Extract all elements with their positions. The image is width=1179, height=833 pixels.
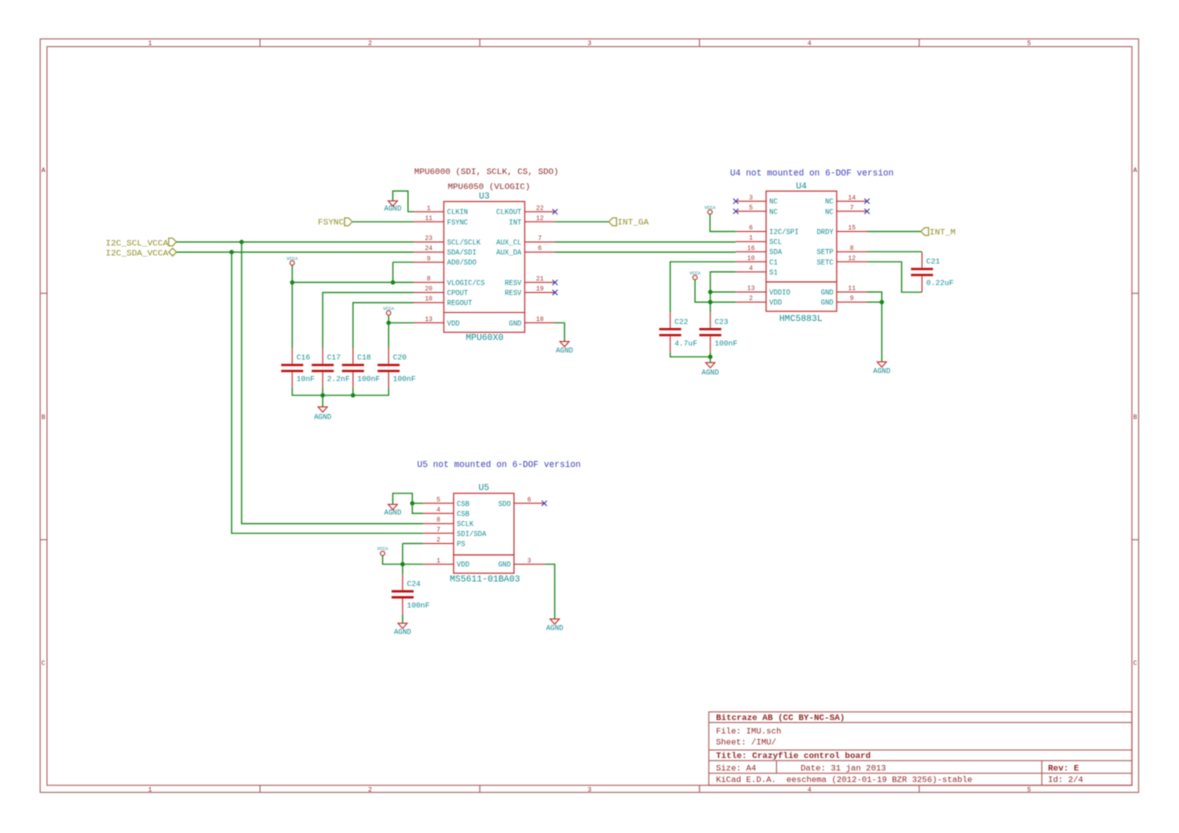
svg-text:13: 13 bbox=[747, 285, 755, 292]
svg-text:AGND: AGND bbox=[546, 625, 563, 633]
svg-text:12: 12 bbox=[848, 255, 856, 262]
svg-text:GND: GND bbox=[509, 320, 522, 328]
svg-text:VDDIO: VDDIO bbox=[769, 290, 790, 298]
svg-text:GND: GND bbox=[821, 290, 834, 298]
svg-text:REGOUT: REGOUT bbox=[447, 300, 472, 308]
svg-text:MPU60X0: MPU60X0 bbox=[466, 333, 504, 343]
svg-text:C: C bbox=[41, 660, 45, 667]
svg-text:10: 10 bbox=[425, 296, 433, 303]
svg-text:2: 2 bbox=[437, 537, 441, 544]
svg-text:DRDY: DRDY bbox=[817, 229, 835, 237]
svg-text:Id: 2/4: Id: 2/4 bbox=[1048, 775, 1083, 785]
svg-text:FSYNC: FSYNC bbox=[447, 219, 468, 227]
svg-text:2: 2 bbox=[368, 40, 372, 47]
svg-text:7: 7 bbox=[538, 235, 542, 242]
svg-text:Size: A4: Size: A4 bbox=[716, 764, 756, 774]
svg-text:I2C_SDA_VCCA: I2C_SDA_VCCA bbox=[106, 249, 169, 259]
svg-text:SDA: SDA bbox=[769, 249, 782, 257]
svg-text:3: 3 bbox=[588, 40, 592, 47]
svg-text:File: IMU.sch: File: IMU.sch bbox=[716, 727, 781, 737]
svg-text:20: 20 bbox=[425, 286, 433, 293]
svg-text:AGND: AGND bbox=[702, 370, 719, 378]
svg-text:C24: C24 bbox=[407, 581, 421, 589]
svg-text:SCL/SCLK: SCL/SCLK bbox=[447, 240, 481, 248]
svg-text:23: 23 bbox=[425, 235, 433, 242]
svg-text:Rev: E: Rev: E bbox=[1048, 764, 1079, 774]
svg-text:100nF: 100nF bbox=[407, 603, 430, 611]
svg-text:SDI/SDA: SDI/SDA bbox=[457, 531, 487, 539]
svg-text:11: 11 bbox=[848, 285, 856, 292]
svg-text:14: 14 bbox=[848, 194, 856, 201]
svg-text:INT_M: INT_M bbox=[930, 227, 956, 237]
svg-text:U3: U3 bbox=[479, 192, 490, 202]
svg-text:12: 12 bbox=[536, 215, 544, 222]
svg-text:9: 9 bbox=[850, 295, 854, 302]
svg-text:C16: C16 bbox=[297, 355, 311, 363]
svg-text:S1: S1 bbox=[769, 269, 777, 277]
svg-text:8: 8 bbox=[850, 245, 854, 252]
svg-text:AGND: AGND bbox=[384, 510, 401, 518]
svg-text:A: A bbox=[41, 167, 45, 174]
svg-text:C22: C22 bbox=[675, 319, 689, 327]
svg-text:MPU6000 (SDI, SCLK, CS, SDO): MPU6000 (SDI, SCLK, CS, SDO) bbox=[414, 167, 558, 177]
svg-text:CPOUT: CPOUT bbox=[447, 290, 468, 298]
svg-text:24: 24 bbox=[425, 245, 433, 252]
svg-text:4: 4 bbox=[807, 786, 811, 793]
svg-text:AUX_CL: AUX_CL bbox=[496, 240, 521, 248]
svg-text:5: 5 bbox=[749, 204, 753, 211]
svg-text:C18: C18 bbox=[357, 355, 371, 363]
svg-text:I2C/SPI: I2C/SPI bbox=[769, 229, 798, 237]
svg-text:NC: NC bbox=[769, 199, 777, 207]
svg-text:PS: PS bbox=[457, 541, 465, 549]
svg-text:2: 2 bbox=[368, 786, 372, 793]
svg-text:1: 1 bbox=[427, 205, 431, 212]
svg-text:0.22uF: 0.22uF bbox=[926, 280, 954, 288]
svg-text:AGND: AGND bbox=[394, 629, 411, 637]
svg-text:HMC5883L: HMC5883L bbox=[779, 314, 822, 324]
svg-text:AGND: AGND bbox=[384, 206, 401, 214]
svg-text:AGND: AGND bbox=[873, 368, 890, 376]
svg-text:6: 6 bbox=[538, 245, 542, 252]
svg-text:100nF: 100nF bbox=[393, 376, 416, 384]
svg-text:U4 not mounted on 6-DOF versio: U4 not mounted on 6-DOF version bbox=[730, 168, 894, 178]
svg-text:SCL: SCL bbox=[769, 239, 782, 247]
svg-text:FSYNC: FSYNC bbox=[318, 218, 344, 228]
svg-text:U4: U4 bbox=[796, 182, 807, 192]
svg-text:SETC: SETC bbox=[817, 259, 834, 267]
svg-text:1: 1 bbox=[148, 786, 152, 793]
svg-text:6: 6 bbox=[527, 496, 531, 503]
svg-text:8: 8 bbox=[437, 517, 441, 524]
svg-text:A: A bbox=[1133, 167, 1137, 174]
svg-text:100nF: 100nF bbox=[357, 376, 380, 384]
svg-text:22: 22 bbox=[536, 205, 544, 212]
svg-text:7: 7 bbox=[850, 204, 854, 211]
svg-text:19: 19 bbox=[536, 286, 544, 293]
svg-text:VDD: VDD bbox=[457, 562, 470, 570]
svg-text:1: 1 bbox=[749, 235, 753, 242]
svg-text:15: 15 bbox=[848, 225, 856, 232]
svg-text:NC: NC bbox=[825, 209, 833, 217]
svg-text:VLOGIC/CS: VLOGIC/CS bbox=[447, 280, 485, 288]
svg-text:C17: C17 bbox=[327, 355, 341, 363]
svg-text:5: 5 bbox=[437, 496, 441, 503]
svg-text:4: 4 bbox=[437, 507, 441, 514]
svg-text:INT_GA: INT_GA bbox=[617, 218, 649, 228]
svg-text:NC: NC bbox=[825, 199, 833, 207]
svg-text:6: 6 bbox=[749, 225, 753, 232]
svg-text:MPU6050 (VLOGIC): MPU6050 (VLOGIC) bbox=[448, 182, 531, 192]
svg-text:100nF: 100nF bbox=[715, 340, 738, 348]
svg-text:RESV: RESV bbox=[505, 290, 523, 298]
svg-text:Date: 31 jan 2013: Date: 31 jan 2013 bbox=[801, 764, 886, 774]
svg-text:NC: NC bbox=[769, 209, 777, 217]
svg-text:AD0/SDO: AD0/SDO bbox=[447, 260, 476, 268]
svg-text:C20: C20 bbox=[393, 355, 407, 363]
svg-text:SDO: SDO bbox=[498, 501, 511, 509]
svg-text:B: B bbox=[1133, 414, 1137, 421]
svg-text:C21: C21 bbox=[926, 259, 940, 267]
svg-text:SDA/SDI: SDA/SDI bbox=[447, 250, 476, 258]
svg-text:RESV: RESV bbox=[505, 280, 523, 288]
svg-text:VDD: VDD bbox=[769, 300, 782, 308]
svg-text:MS5611-01BA03: MS5611-01BA03 bbox=[450, 575, 520, 585]
svg-text:18: 18 bbox=[536, 316, 544, 323]
svg-text:CSB: CSB bbox=[457, 501, 470, 509]
svg-text:4: 4 bbox=[807, 40, 811, 47]
svg-text:I2C_SCL_VCCA: I2C_SCL_VCCA bbox=[106, 238, 169, 248]
svg-text:INT: INT bbox=[509, 219, 522, 227]
svg-text:Title: Crazyflie control board: Title: Crazyflie control board bbox=[716, 751, 871, 761]
svg-text:C23: C23 bbox=[715, 319, 729, 327]
svg-text:GND: GND bbox=[821, 300, 834, 308]
svg-text:9: 9 bbox=[427, 255, 431, 262]
svg-text:1: 1 bbox=[437, 557, 441, 564]
svg-text:U5 not mounted on 6-DOF versio: U5 not mounted on 6-DOF version bbox=[417, 460, 581, 470]
svg-text:Bitcraze AB (CC BY-NC-SA): Bitcraze AB (CC BY-NC-SA) bbox=[716, 713, 845, 723]
svg-text:CLKOUT: CLKOUT bbox=[496, 209, 521, 217]
svg-text:13: 13 bbox=[425, 316, 433, 323]
svg-text:Sheet: /IMU/: Sheet: /IMU/ bbox=[716, 737, 776, 747]
svg-text:21: 21 bbox=[536, 276, 544, 283]
svg-text:4: 4 bbox=[749, 265, 753, 272]
svg-text:C: C bbox=[1133, 660, 1137, 667]
svg-text:3: 3 bbox=[749, 194, 753, 201]
svg-text:C1: C1 bbox=[769, 259, 777, 267]
svg-text:2.2nF: 2.2nF bbox=[327, 376, 350, 384]
svg-text:SCLK: SCLK bbox=[457, 521, 475, 529]
svg-text:10: 10 bbox=[747, 255, 755, 262]
svg-text:4.7uF: 4.7uF bbox=[675, 340, 698, 348]
svg-text:CLKIN: CLKIN bbox=[447, 209, 468, 217]
svg-text:7: 7 bbox=[437, 526, 441, 533]
svg-text:5: 5 bbox=[1027, 786, 1031, 793]
svg-text:AUX_DA: AUX_DA bbox=[496, 250, 522, 258]
svg-text:KiCad E.D.A. eeschema (2012-0: KiCad E.D.A. eeschema (2012-01-19 BZR 32… bbox=[716, 775, 972, 785]
svg-text:3: 3 bbox=[527, 557, 531, 564]
svg-text:U5: U5 bbox=[478, 483, 489, 493]
svg-text:2: 2 bbox=[749, 295, 753, 302]
svg-text:VDD: VDD bbox=[447, 320, 460, 328]
svg-text:AGND: AGND bbox=[556, 348, 573, 356]
svg-text:3: 3 bbox=[588, 786, 592, 793]
svg-text:8: 8 bbox=[427, 276, 431, 283]
svg-text:1: 1 bbox=[148, 40, 152, 47]
svg-text:11: 11 bbox=[425, 215, 433, 222]
svg-text:SETP: SETP bbox=[817, 249, 834, 257]
svg-text:10nF: 10nF bbox=[297, 376, 316, 384]
svg-text:16: 16 bbox=[747, 245, 755, 252]
svg-text:5: 5 bbox=[1027, 40, 1031, 47]
svg-text:GND: GND bbox=[498, 562, 511, 570]
svg-text:AGND: AGND bbox=[314, 414, 331, 422]
svg-text:B: B bbox=[41, 414, 45, 421]
svg-text:CSB: CSB bbox=[457, 511, 470, 519]
